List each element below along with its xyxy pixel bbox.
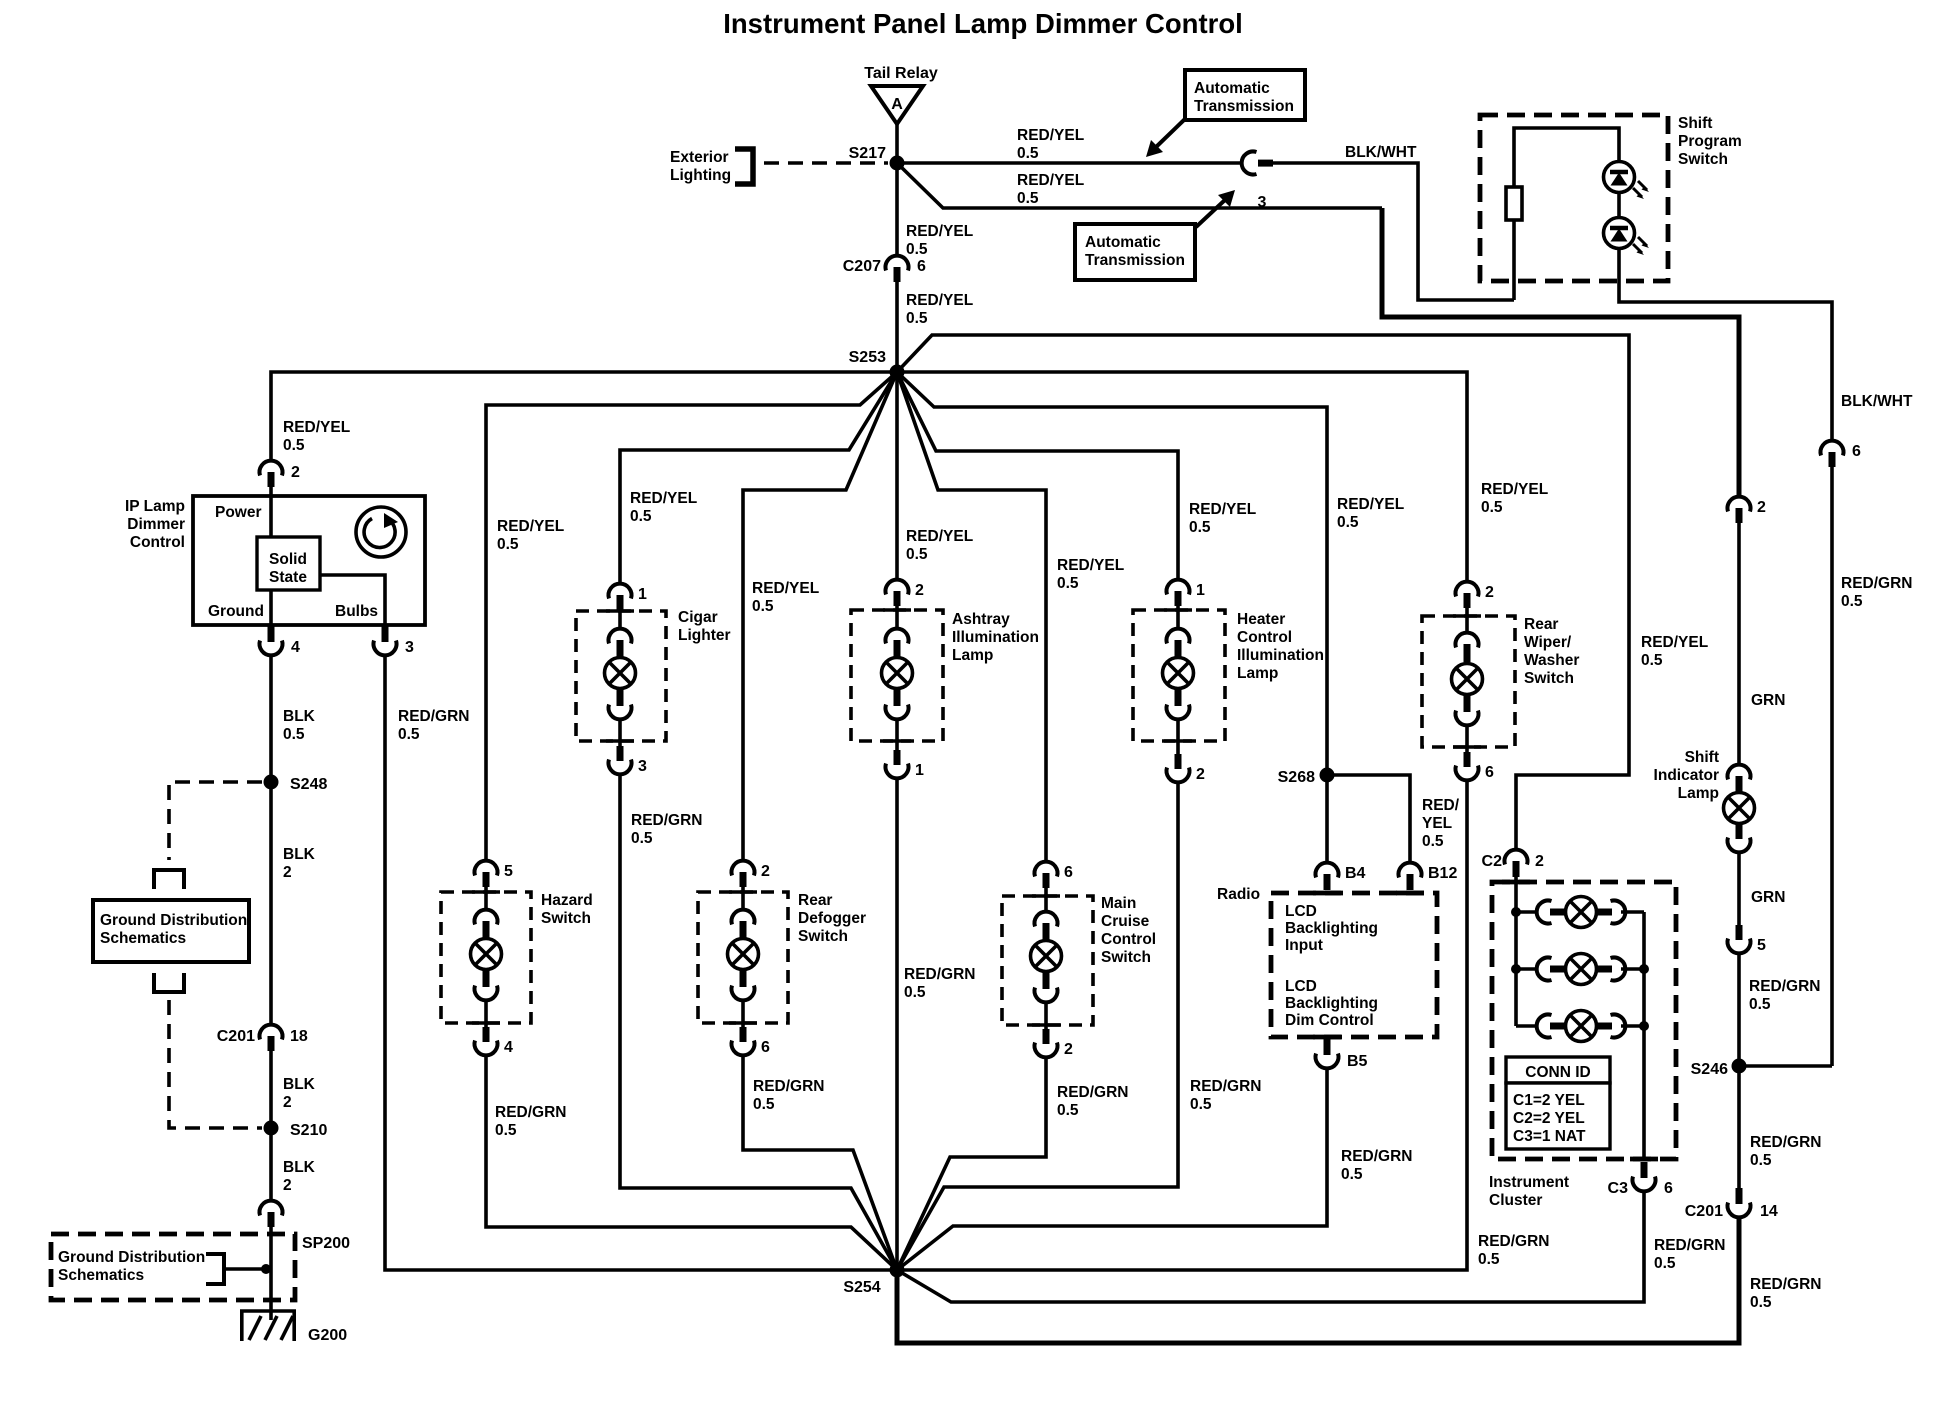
wire wiper to S254 bbox=[897, 782, 1467, 1270]
connector 6 main cruise bbox=[1035, 862, 1074, 888]
bracket link inside SP200 box bbox=[206, 1254, 271, 1284]
connector 6 wiper bottom bbox=[1456, 752, 1495, 781]
wire S253 to main cruise switch bbox=[897, 372, 1046, 860]
svg-text:GRN: GRN bbox=[1751, 889, 1785, 906]
connector 3 cigar bbox=[609, 746, 648, 775]
wire conn5 into box bbox=[484, 887, 488, 908]
connector C201 pin 14 bbox=[1685, 1188, 1778, 1220]
wire S253 to rear defogger bbox=[743, 372, 897, 859]
lamp cigar lighter bbox=[605, 629, 636, 720]
svg-text:ExteriorLighting: ExteriorLighting bbox=[670, 149, 731, 184]
svg-text:6: 6 bbox=[1064, 864, 1073, 881]
LED 1 bbox=[1604, 162, 1650, 200]
svg-text:BLK/WHT: BLK/WHT bbox=[1345, 144, 1417, 161]
wire conn2 to shift lamp bbox=[1737, 523, 1741, 763]
wire conn1 into box bbox=[618, 610, 622, 627]
svg-text:2: 2 bbox=[761, 863, 770, 880]
wire S268 to B12 bbox=[1327, 775, 1410, 861]
svg-text:A: A bbox=[891, 96, 903, 113]
wire conn2 into box bbox=[741, 887, 745, 908]
ground G200 bbox=[240, 1311, 347, 1344]
svg-text:18: 18 bbox=[290, 1028, 308, 1045]
lamp rear defogger bbox=[728, 910, 759, 1001]
Automatic Transmission callout 1 bbox=[1185, 70, 1305, 120]
svg-text:1: 1 bbox=[1196, 582, 1205, 599]
connector B5 bbox=[1316, 1039, 1368, 1070]
LED 2 bbox=[1604, 218, 1650, 256]
svg-text:Tail Relay: Tail Relay bbox=[864, 65, 938, 82]
svg-text:C201: C201 bbox=[1685, 1203, 1723, 1220]
IP lamp dimmer control box bbox=[193, 496, 425, 625]
wire lamp to conn1 bbox=[895, 721, 899, 750]
cluster right bus bbox=[1642, 912, 1646, 1159]
svg-text:S253: S253 bbox=[849, 349, 886, 366]
svg-text:6: 6 bbox=[1485, 764, 1494, 781]
dashed link to S210 bbox=[169, 1000, 262, 1128]
svg-text:GRN: GRN bbox=[1751, 692, 1785, 709]
node S253 bbox=[849, 349, 905, 380]
Ground Distribution Schematics dashed box bbox=[51, 1234, 295, 1300]
main cruise control switch box bbox=[1002, 895, 1156, 1025]
svg-text:2: 2 bbox=[291, 464, 300, 481]
svg-text:2: 2 bbox=[1535, 853, 1544, 870]
svg-text:1: 1 bbox=[915, 762, 924, 779]
wire connector 3 to corner bbox=[1273, 163, 1514, 300]
wire cigar to S254 bbox=[620, 776, 897, 1270]
node S268 bbox=[1278, 768, 1335, 787]
wire resistor down to BLK/WHT return bbox=[1512, 220, 1516, 300]
connector 3 IP bulbs bbox=[374, 625, 415, 656]
wire RED/GRN down right edge bbox=[1830, 467, 1834, 1066]
connector 5 bbox=[1728, 925, 1767, 954]
cluster left bus bbox=[1514, 877, 1518, 1026]
heater control illumination lamp box bbox=[1133, 610, 1324, 741]
connector 2 rear defogger bbox=[732, 861, 771, 887]
arrow from callout 2 bbox=[1196, 190, 1235, 227]
cluster lamp row 1 bbox=[1511, 897, 1644, 928]
cluster lamp row 2 bbox=[1511, 954, 1649, 985]
wire S217 lower branch bbox=[897, 163, 1382, 208]
svg-text:6: 6 bbox=[1852, 443, 1861, 460]
connector 6 defogger bbox=[732, 1027, 771, 1056]
rear wiper washer switch box bbox=[1422, 616, 1579, 747]
node S210 bbox=[264, 1121, 328, 1140]
lamp ashtray bbox=[882, 629, 913, 720]
wire ashtray to S254 bbox=[895, 780, 899, 1270]
wire C201 to S210 bbox=[269, 1051, 273, 1128]
node S248 bbox=[264, 775, 328, 794]
wire lamp to conn6 bbox=[1465, 727, 1469, 752]
connector 2 cruise bottom bbox=[1035, 1029, 1074, 1058]
connector B4 bbox=[1316, 863, 1366, 890]
wire conn6 into box bbox=[1044, 888, 1048, 910]
connector 2 rear wiper bbox=[1456, 582, 1495, 608]
hazard switch box bbox=[441, 892, 593, 1023]
wire through splice pack to ground bbox=[269, 1227, 273, 1320]
wire heavy to right column bbox=[1382, 208, 1739, 495]
svg-text:C2: C2 bbox=[1482, 853, 1503, 870]
svg-text:C1=2 YELC2=2 YELC3=1 NAT: C1=2 YELC2=2 YELC3=1 NAT bbox=[1513, 1092, 1586, 1145]
svg-text:B4: B4 bbox=[1345, 865, 1366, 882]
svg-text:S248: S248 bbox=[290, 776, 327, 793]
wire lamp to conn3 bbox=[618, 721, 622, 746]
tail relay A bbox=[871, 86, 923, 124]
bracket top of ground distribution box bbox=[154, 870, 184, 889]
connector C3 pin 6 bbox=[1608, 1162, 1673, 1197]
connector 3 inline bbox=[1242, 152, 1273, 212]
Automatic Transmission callout 2 bbox=[1075, 224, 1195, 280]
svg-text:SP200: SP200 bbox=[302, 1235, 350, 1252]
svg-text:BLK/WHT: BLK/WHT bbox=[1841, 393, 1913, 410]
wire LED branch out bbox=[1619, 249, 1832, 439]
wire lamp to conn2 bbox=[1176, 721, 1180, 754]
wire conn2 into box bbox=[1465, 608, 1469, 631]
dimmer rotation icon bbox=[356, 507, 406, 557]
lamp rear wiper bbox=[1452, 633, 1483, 726]
wire solid state to bulbs pin bbox=[320, 575, 385, 628]
svg-text:5: 5 bbox=[504, 863, 513, 880]
Shift Program Switch box bbox=[1480, 115, 1742, 281]
exterior lighting bracket bbox=[735, 149, 753, 184]
wire BLK/WHT column to S246 bbox=[1739, 1064, 1832, 1068]
wire B5 to S254 bbox=[897, 1070, 1327, 1270]
svg-text:Power: Power bbox=[215, 504, 262, 521]
wire into IP box bbox=[269, 487, 273, 537]
svg-text:S254: S254 bbox=[843, 1279, 880, 1296]
svg-text:14: 14 bbox=[1760, 1203, 1778, 1220]
svg-text:2: 2 bbox=[1196, 766, 1205, 783]
svg-text:B12: B12 bbox=[1428, 865, 1457, 882]
wire hazard to S254 bbox=[486, 1057, 897, 1270]
connector 1 cigar lighter bbox=[609, 584, 648, 610]
cluster lamp row 3 bbox=[1516, 1011, 1649, 1042]
cigar lighter box bbox=[576, 609, 731, 741]
wire tail relay to S217 bbox=[895, 124, 899, 163]
connector 2 heater bottom bbox=[1167, 754, 1206, 783]
svg-text:G200: G200 bbox=[308, 1327, 347, 1344]
wire S210 down bbox=[269, 1128, 273, 1199]
connector 2 ashtray bbox=[886, 580, 925, 606]
svg-text:2: 2 bbox=[1485, 584, 1494, 601]
wire C207 to S253 bbox=[895, 282, 899, 372]
wire conn2 into box bbox=[895, 606, 899, 627]
svg-text:IP LampDimmerControl: IP LampDimmerControl bbox=[125, 498, 185, 551]
wire S253 to hazard switch bbox=[486, 372, 897, 859]
wire conn1 into box bbox=[1176, 606, 1180, 627]
svg-text:C207: C207 bbox=[843, 258, 881, 275]
dashed link S248 to ground distribution bbox=[169, 782, 262, 860]
wire S253 to S268 bbox=[897, 372, 1327, 768]
svg-text:Radio: Radio bbox=[1217, 886, 1260, 903]
radio LCD backlighting box bbox=[1271, 893, 1437, 1037]
node S217 bbox=[849, 145, 905, 171]
wire solid state to ground pin bbox=[269, 590, 273, 628]
shift indicator lamp bbox=[1654, 749, 1755, 852]
wire dashed exterior to S217 bbox=[764, 161, 888, 165]
arrow from callout 1 bbox=[1146, 119, 1185, 157]
instrument cluster box bbox=[1489, 882, 1676, 1209]
wire defogger to S254 bbox=[743, 1057, 897, 1270]
svg-text:C3: C3 bbox=[1608, 1180, 1629, 1197]
connector C207 pin 6 bbox=[843, 256, 926, 282]
rear defogger switch box bbox=[698, 892, 866, 1023]
wire S217 down to C207 bbox=[895, 163, 899, 254]
svg-text:S217: S217 bbox=[849, 145, 886, 162]
node S254 bbox=[843, 1263, 904, 1297]
wire S253 to rear wiper switch bbox=[897, 372, 1467, 580]
svg-text:HazardSwitch: HazardSwitch bbox=[541, 892, 593, 927]
wire SPS internal top bbox=[1514, 128, 1619, 187]
Ground Distribution Schematics box bbox=[93, 900, 249, 962]
connector above SP200 bbox=[260, 1201, 283, 1227]
svg-text:6: 6 bbox=[1664, 1180, 1673, 1197]
wire S253 to IP dimmer power bbox=[271, 372, 897, 459]
svg-text:CONN ID: CONN ID bbox=[1525, 1064, 1590, 1081]
solid state box bbox=[257, 537, 320, 590]
wire C201 to S254 heavy bbox=[897, 1219, 1739, 1343]
svg-text:6: 6 bbox=[917, 258, 926, 275]
connector 6 bbox=[1821, 441, 1862, 467]
wire lamp to conn6 bbox=[741, 1002, 745, 1027]
ashtray illumination lamp box bbox=[851, 610, 1039, 741]
wire C3 to S254 bbox=[897, 1193, 1644, 1302]
svg-text:3: 3 bbox=[638, 758, 647, 775]
wire S253 to instrument cluster C2 bbox=[897, 335, 1629, 848]
svg-text:Bulbs: Bulbs bbox=[335, 603, 378, 620]
wire cruise to S254 bbox=[897, 1059, 1046, 1270]
lamp main cruise bbox=[1031, 912, 1062, 1003]
connector 5 hazard bbox=[475, 861, 514, 887]
wire lamp to conn4 bbox=[484, 1002, 488, 1027]
svg-text:S210: S210 bbox=[290, 1122, 327, 1139]
connector 4 IP ground bbox=[260, 625, 301, 656]
connector 1 ashtray bbox=[886, 750, 925, 779]
svg-text:2: 2 bbox=[915, 582, 924, 599]
svg-text:5: 5 bbox=[1757, 937, 1766, 954]
svg-text:Ground: Ground bbox=[208, 603, 264, 620]
wire conn5 to S246 bbox=[1737, 955, 1741, 1066]
connector 2 shift lamp feed bbox=[1728, 497, 1767, 523]
wire S253 to ashtray lamp bbox=[895, 372, 899, 578]
wire heater to S254 bbox=[897, 784, 1178, 1270]
svg-text:C201: C201 bbox=[217, 1028, 255, 1045]
wire S248 to C201 bbox=[269, 782, 273, 1023]
connector 4 hazard bbox=[475, 1027, 514, 1056]
wire S253 to cigar lighter bbox=[620, 372, 897, 582]
wire S217 right to connector 3 bbox=[897, 161, 1243, 165]
svg-text:Instrument Panel Lamp Dimmer C: Instrument Panel Lamp Dimmer Control bbox=[723, 8, 1243, 39]
wire shift lamp to conn5 bbox=[1737, 854, 1741, 925]
svg-text:1: 1 bbox=[638, 586, 647, 603]
svg-text:S246: S246 bbox=[1691, 1061, 1728, 1078]
lamp heater bbox=[1163, 629, 1194, 720]
wire S268 to B4 bbox=[1325, 775, 1329, 861]
svg-text:4: 4 bbox=[291, 639, 300, 656]
wire bulbs pin down to S254 level bbox=[385, 657, 897, 1270]
svg-text:6: 6 bbox=[761, 1039, 770, 1056]
svg-text:B5: B5 bbox=[1347, 1053, 1368, 1070]
svg-text:SolidState: SolidState bbox=[269, 551, 307, 586]
wire between LEDs bbox=[1617, 193, 1621, 217]
wire ground pin to S248 bbox=[269, 657, 273, 782]
svg-text:2: 2 bbox=[1757, 499, 1766, 516]
node S246 bbox=[1691, 1059, 1747, 1079]
wire S253 to heater lamp bbox=[897, 372, 1178, 578]
connector C2 pin 2 bbox=[1482, 850, 1544, 877]
svg-text:2: 2 bbox=[1064, 1041, 1073, 1058]
wire S246 to C201 bbox=[1737, 1066, 1741, 1188]
connector 2 IP power bbox=[260, 461, 301, 487]
svg-text:3: 3 bbox=[405, 639, 414, 656]
svg-text:4: 4 bbox=[504, 1039, 513, 1056]
connector B12 bbox=[1399, 863, 1458, 890]
connector C201 pin 18 bbox=[217, 1025, 308, 1051]
connector 1 heater lamp bbox=[1167, 580, 1206, 606]
resistor SPS bbox=[1506, 187, 1522, 220]
svg-text:S268: S268 bbox=[1278, 769, 1315, 786]
CONN ID table bbox=[1506, 1057, 1610, 1149]
wire lamp to conn2 bbox=[1044, 1004, 1048, 1029]
bracket below ground distribution box bbox=[154, 973, 184, 992]
lamp hazard bbox=[471, 910, 502, 1001]
